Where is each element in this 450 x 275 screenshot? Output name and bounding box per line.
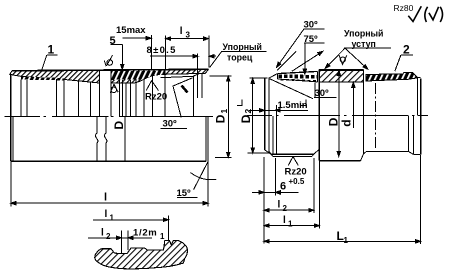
svg-text:2: 2 xyxy=(283,204,288,213)
30deg mid leader xyxy=(314,97,337,99)
Rz20 tick left xyxy=(146,81,158,91)
svg-text:15º: 15º xyxy=(177,188,192,199)
right thread bottom xyxy=(367,150,409,152)
svg-text:1: 1 xyxy=(219,109,229,114)
svg-text:15max: 15max xyxy=(116,25,146,36)
svg-text:d: d xyxy=(340,119,354,126)
svg-text:D: D xyxy=(239,114,253,123)
pipe top edge xyxy=(12,69,208,71)
diagonal leader 1.5min xyxy=(269,79,313,99)
Rz80 checks xyxy=(408,6,442,22)
roughness mark on body xyxy=(339,55,347,65)
svg-text:2: 2 xyxy=(243,109,253,114)
roughness sign lower xyxy=(111,87,117,93)
svg-text:2: 2 xyxy=(403,43,410,57)
6+0.5 dim xyxy=(252,191,299,193)
centerline right figure xyxy=(247,115,272,117)
corner marks xyxy=(237,100,242,106)
svg-text:1: 1 xyxy=(288,220,293,229)
svg-text:75º: 75º xyxy=(304,34,319,45)
svg-text:1: 1 xyxy=(48,43,55,57)
8+-0.5 dim xyxy=(150,55,198,57)
ustup leader xyxy=(344,47,391,49)
svg-text:Rz20: Rz20 xyxy=(285,167,307,178)
thread teeth row left figure xyxy=(21,77,64,81)
verticals (internal steps) band to centerline xyxy=(20,80,22,117)
top edge of body xyxy=(319,69,363,71)
left thread zone band xyxy=(277,71,317,73)
svg-text:3: 3 xyxy=(186,31,191,40)
l2 + 1/2m1 dims xyxy=(88,237,152,239)
15max dim xyxy=(122,37,151,39)
svg-text:30º: 30º xyxy=(315,88,330,99)
left face of pipe xyxy=(10,75,12,162)
svg-text:5: 5 xyxy=(110,35,116,47)
svg-text:l: l xyxy=(278,200,281,211)
label 1 leader xyxy=(47,54,58,56)
left band section B (upset + end) xyxy=(111,69,209,83)
svg-text:2: 2 xyxy=(106,232,111,241)
svg-text:1/2m: 1/2m xyxy=(133,228,157,239)
Uporny torets leader xyxy=(222,50,267,52)
d dim xyxy=(352,82,354,128)
svg-text:30º: 30º xyxy=(163,119,178,130)
30 top leader xyxy=(304,28,324,30)
right thread zone band xyxy=(366,72,418,81)
svg-text:Rz80: Rz80 xyxy=(394,3,414,13)
30deg leader left figure xyxy=(173,78,193,118)
svg-text:D: D xyxy=(214,114,228,123)
left band section A (hatched wall, pipe body) xyxy=(10,70,100,83)
L1 dim xyxy=(264,240,421,242)
body band hatched xyxy=(319,70,364,82)
svg-text:30º: 30º xyxy=(304,20,319,31)
75 leader xyxy=(304,42,324,44)
bore edges below centerline xyxy=(272,116,274,154)
l dim xyxy=(10,162,12,207)
bottom edge xyxy=(11,160,206,162)
centerline left figure xyxy=(5,116,41,118)
D1 dim xyxy=(210,75,232,77)
extra flank lines xyxy=(277,52,296,71)
svg-text:торец: торец xyxy=(227,53,253,63)
svg-text:Упорный: Упорный xyxy=(344,29,383,39)
bottom chamfer left xyxy=(265,150,271,154)
svg-text:уступ: уступ xyxy=(352,39,376,49)
svg-text:l: l xyxy=(105,209,108,220)
right end face xyxy=(417,77,420,79)
bottom face left thread xyxy=(271,153,314,155)
1.5min dim xyxy=(249,109,308,111)
5 label leader xyxy=(111,44,123,46)
svg-text:Упорный: Упорный xyxy=(223,42,262,52)
svg-text:l: l xyxy=(101,228,104,239)
svg-text:8±0.5: 8±0.5 xyxy=(147,45,177,56)
roughness sign upper xyxy=(107,60,113,66)
shoulder body xyxy=(318,70,320,161)
svg-text:6: 6 xyxy=(280,181,286,193)
svg-text:l: l xyxy=(104,192,107,204)
D2 dim xyxy=(250,77,268,79)
15deg taper mark xyxy=(194,161,209,190)
svg-text:l: l xyxy=(283,215,286,226)
svg-text:1.5min: 1.5min xyxy=(278,100,308,111)
svg-text:+0.5: +0.5 xyxy=(289,177,305,186)
label 2 leader xyxy=(401,54,413,56)
15deg underline xyxy=(177,197,198,199)
lower-half chamfer line xyxy=(12,117,14,162)
dash-dot axis in right thread xyxy=(374,83,376,150)
break lines lower body xyxy=(96,117,98,162)
svg-text:1: 1 xyxy=(110,214,115,223)
l2 right dim xyxy=(264,209,314,211)
svg-text:1: 1 xyxy=(160,232,165,241)
face extension long xyxy=(263,157,265,243)
bore line near end xyxy=(161,73,200,77)
D dim xyxy=(338,70,340,156)
left face of right figure xyxy=(264,78,266,150)
l1 right dim xyxy=(264,225,319,227)
upset boundary lower half xyxy=(124,117,126,162)
Rz20 tick right xyxy=(288,157,298,166)
right end edges below centerline xyxy=(205,117,207,162)
svg-text:1: 1 xyxy=(344,236,349,245)
svg-text:l: l xyxy=(180,26,183,37)
l1 dim xyxy=(93,219,168,221)
svg-text:D: D xyxy=(327,117,341,126)
svg-text:D: D xyxy=(112,121,126,130)
l3 dim xyxy=(166,38,209,40)
svg-text:Rz20: Rz20 xyxy=(145,92,167,103)
